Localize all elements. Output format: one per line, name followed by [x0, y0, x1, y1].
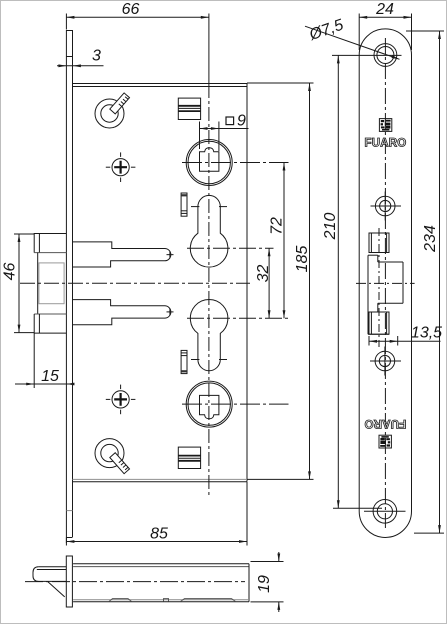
staple bolt head — [34, 234, 66, 334]
dimension square 9 — [200, 112, 249, 151]
screw top — [106, 152, 136, 182]
spring pack bottom — [178, 447, 200, 468]
svg-text:15: 15 — [41, 368, 59, 385]
svg-text:13,5: 13,5 — [411, 324, 442, 341]
plate latch cutout — [369, 233, 389, 253]
plate lower screw hole — [370, 347, 401, 376]
svg-text:46: 46 — [2, 263, 19, 281]
dimension 24 plate width — [359, 1, 411, 50]
svg-text:185: 185 — [294, 246, 311, 273]
dimension 234 — [406, 31, 444, 533]
svg-text:66: 66 — [122, 1, 140, 18]
dimension diameter 7,5 leader — [305, 17, 400, 60]
svg-text:210: 210 — [322, 213, 339, 241]
svg-text:85: 85 — [150, 525, 168, 542]
pin top — [181, 193, 187, 216]
svg-text:9: 9 — [237, 112, 246, 129]
euro cylinder hole bottom — [190, 300, 228, 371]
centerline euro bottom axis — [187, 317, 289, 319]
bottom view body — [73, 564, 249, 602]
screw bottom — [106, 385, 136, 415]
svg-text:FUARO: FUARO — [364, 417, 406, 429]
strike plate outline — [359, 29, 411, 538]
dimension 210 — [322, 55, 382, 508]
centerline euro top axis — [187, 247, 274, 249]
euro cylinder hole top — [190, 195, 228, 267]
bottom view tabs — [109, 599, 236, 602]
svg-text:24: 24 — [375, 1, 394, 18]
plate upper screw hole — [371, 192, 402, 221]
square hole 9mm top — [200, 148, 219, 171]
FUARO logo bottom (rotated 180) — [364, 417, 406, 448]
staple bolt top arm — [73, 242, 174, 267]
staple bolt bottom arm — [73, 300, 174, 325]
dimension 66 top — [66, 1, 208, 30]
snib lever top — [95, 93, 130, 128]
bottom view group placeholder — [25, 556, 249, 607]
plate centerline horizontal — [356, 282, 415, 284]
snib lever bottom — [95, 439, 130, 474]
plate bottom hole — [364, 500, 406, 524]
centerline vertical body axis — [208, 14, 210, 498]
plate top hole — [332, 44, 402, 67]
bottom view faceplate — [66, 556, 72, 607]
spring pack top — [178, 98, 200, 119]
FUARO logo top — [365, 119, 407, 150]
plate bottom slot cutout — [368, 312, 389, 334]
svg-text:72: 72 — [269, 217, 286, 235]
plate bolt cutout — [368, 255, 403, 334]
bottom view centerline — [25, 581, 245, 583]
svg-text:234: 234 — [422, 225, 439, 253]
bottom view latch bolt — [33, 567, 66, 597]
faceplate edge view — [66, 30, 72, 543]
dimension 32 — [255, 248, 272, 318]
cutout centerline — [378, 228, 380, 347]
dimension 13,5 — [369, 324, 442, 345]
dimension 72 — [269, 163, 286, 319]
dimension 15 — [15, 334, 75, 389]
dimension 3 faceplate thickness — [57, 48, 104, 67]
square hole 9mm bottom — [200, 395, 219, 418]
dimension 185 body height — [247, 83, 314, 479]
centerline follower top axis — [182, 162, 289, 164]
plate centerline vertical — [384, 38, 386, 528]
dimension 46 bolt head — [2, 234, 35, 333]
dimension 85 bottom — [66, 482, 247, 546]
svg-text:32: 32 — [255, 265, 272, 283]
svg-text:FUARO: FUARO — [365, 138, 407, 150]
pin bottom — [181, 350, 187, 373]
svg-text:3: 3 — [92, 48, 101, 65]
centerline follower bottom axis — [182, 403, 289, 405]
follower hub top — [186, 140, 232, 186]
lock body case outline — [73, 83, 248, 482]
svg-text:19: 19 — [256, 575, 273, 593]
follower hub bottom — [186, 381, 232, 427]
dimension 19 bottom view — [251, 552, 284, 612]
centerline horizontal main axis — [20, 282, 250, 284]
